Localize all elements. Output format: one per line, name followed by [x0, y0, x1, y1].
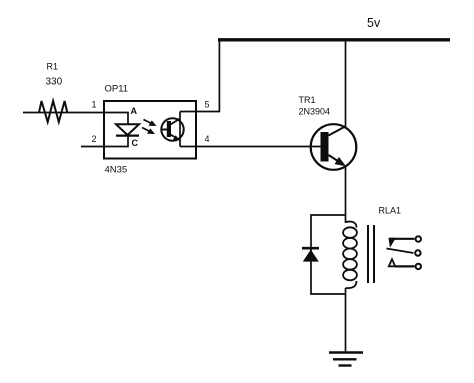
svg-text:330: 330: [46, 77, 63, 88]
svg-text:RLA1: RLA1: [379, 206, 402, 216]
phototransistor base bar: [167, 121, 171, 137]
TR1 base bar: [321, 132, 329, 162]
relay armature wedge: [388, 238, 396, 248]
wire: pin1 into box to LED anode: [104, 113, 128, 125]
wire: coil bottom to ground: [345, 288, 347, 353]
LED diode in opto: [116, 124, 139, 135]
relay contact common terminal circle: [415, 250, 420, 255]
light arrow 2: [142, 128, 151, 133]
svg-text:OP11: OP11: [105, 84, 129, 95]
relay contact NC line: [390, 238, 415, 240]
relay core line 1: [367, 225, 369, 283]
relay contact NC terminal circle: [416, 236, 421, 241]
wire: rail down to opto pin 5: [180, 40, 219, 112]
svg-text:1: 1: [92, 100, 97, 110]
svg-text:5v: 5v: [367, 16, 381, 30]
phototransistor emitter diagonal: [171, 135, 178, 139]
wire: pin 2: [81, 137, 128, 147]
transistor TR1: [311, 124, 357, 170]
svg-text:4: 4: [205, 134, 210, 144]
wire: rail down to transistor collector: [345, 40, 347, 127]
svg-text:R1: R1: [47, 62, 59, 72]
svg-text:2N3904: 2N3904: [299, 107, 331, 117]
flyback diode D1: [303, 250, 319, 262]
wire: input lead into resistor: [23, 112, 104, 114]
TR1 emitter diagonal: [329, 155, 342, 163]
wire: emitter down to relay coil: [345, 166, 347, 224]
ground: [329, 351, 363, 353]
opto phototransistor circle: [161, 118, 183, 140]
phototransistor collector diagonal: [171, 119, 181, 125]
svg-text:5: 5: [205, 100, 210, 110]
relay NO contact open triangle: [389, 259, 395, 266]
TR1 emitter arrowhead: [335, 157, 346, 166]
5v power rail: [218, 38, 450, 41]
flyback diode D1 cathode bar: [302, 247, 319, 250]
opto-coupler OP11 box: [104, 101, 196, 159]
relay core line 2: [373, 225, 375, 283]
wire: branch to flyback diode top: [311, 215, 346, 294]
phototransistor output bracket: [179, 112, 181, 147]
svg-text:2: 2: [92, 134, 97, 144]
resistor R1: [39, 101, 67, 122]
svg-text:TR1: TR1: [299, 95, 316, 105]
relay contact NO line: [395, 265, 415, 267]
phototransistor base lead: [162, 129, 168, 131]
svg-text:C: C: [132, 138, 139, 148]
svg-text:4N35: 4N35: [105, 165, 128, 176]
relay coil RLA1: [346, 222, 357, 228]
svg-text:A: A: [131, 106, 138, 116]
wire: opto pin4 to transistor base: [180, 146, 321, 148]
relay armature (moving contact): [387, 249, 414, 254]
light arrow 1: [144, 120, 153, 125]
TR1 collector diagonal: [329, 126, 347, 136]
relay contact NO terminal circle: [416, 264, 421, 269]
